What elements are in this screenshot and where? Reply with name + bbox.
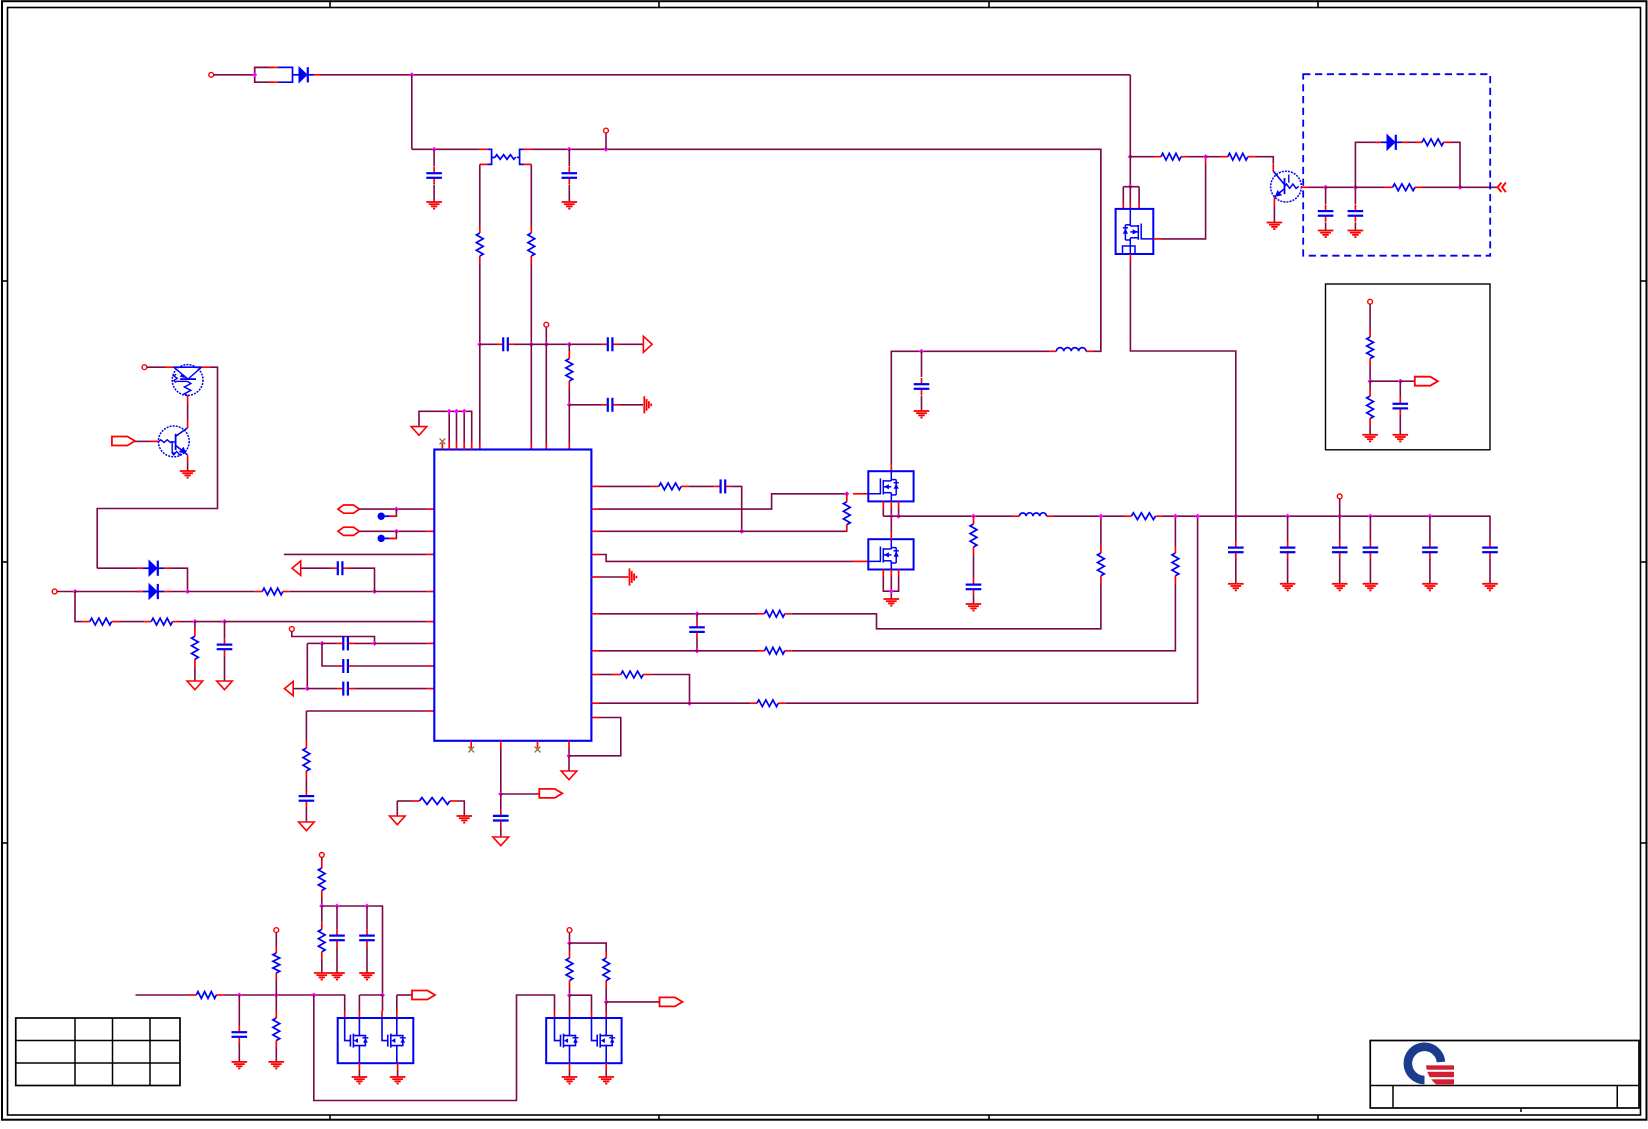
resistor R10 xyxy=(843,495,850,532)
wire U2 source bracket2 xyxy=(898,509,900,517)
pin stub IC top 9 xyxy=(568,443,570,450)
port FB in xyxy=(285,681,294,695)
wire U2 source bracket xyxy=(882,509,884,517)
wire U4 gate route xyxy=(1161,163,1206,239)
pin stub IC right 1 xyxy=(591,485,599,487)
wire caprow3 right xyxy=(354,688,427,690)
pin stub U5 top 382.0 xyxy=(381,1011,383,1018)
wire J10 down xyxy=(275,933,277,947)
offpage connector lens 2 xyxy=(338,527,359,535)
junction C2 tap xyxy=(567,147,572,152)
wire C24 top xyxy=(1354,187,1356,204)
wire pin3 drop xyxy=(382,995,384,1011)
wire C2 down xyxy=(568,185,570,202)
wire C15 up xyxy=(921,351,923,377)
mosfet U3 xyxy=(868,539,913,569)
capacitor C8 xyxy=(337,636,354,650)
wire pin2 drop xyxy=(358,995,360,1011)
wire rail y149 right xyxy=(531,149,1101,351)
resistor R24 xyxy=(1367,389,1374,426)
capacitor C13 xyxy=(714,479,731,493)
power symbol PW3 xyxy=(217,681,233,690)
terminal J8 xyxy=(1368,299,1373,304)
wire C6 to row591 xyxy=(349,568,375,591)
wire R5-R6 xyxy=(119,621,145,623)
IC U1 xyxy=(434,450,591,741)
power symbol PW1 xyxy=(411,427,427,436)
resistor R31 xyxy=(566,951,573,988)
wire row651 b xyxy=(697,650,758,652)
wire Q3 out b xyxy=(1326,186,1356,188)
wire IC bottom pin4 xyxy=(568,748,570,756)
capacitor C9 xyxy=(337,659,354,673)
pin stub U6 top 606.25 xyxy=(605,1011,607,1018)
terminal J5 xyxy=(52,589,57,594)
wire J9 down xyxy=(321,857,323,861)
junction bus C19 xyxy=(1337,514,1342,519)
junction R28 tap xyxy=(274,992,279,997)
wire to D3 xyxy=(75,591,141,593)
capacitor C26 xyxy=(329,929,345,946)
wire R25 down xyxy=(321,898,323,907)
junction at F1 pin xyxy=(252,72,257,77)
wire lens2 to IC xyxy=(359,530,426,532)
pin stub IC bottom 4 xyxy=(568,741,570,748)
wire J5 down xyxy=(75,592,83,622)
pin stub U6 top 591.5 xyxy=(591,1011,593,1018)
pin stub U3 gate xyxy=(853,560,868,562)
resistor R6 xyxy=(144,618,179,625)
terminal J7 xyxy=(1337,494,1342,499)
wire row554 left xyxy=(284,553,427,555)
wire U6 gnd1 xyxy=(569,1070,571,1077)
no-connect X mark top xyxy=(440,438,446,444)
wire to IC left pin1 xyxy=(375,591,427,593)
junction SW node a xyxy=(889,514,894,519)
terminal J10 xyxy=(274,928,279,933)
ground U5 a xyxy=(352,1077,368,1084)
junction route tap xyxy=(311,992,316,997)
junction D2/D3 xyxy=(185,589,190,594)
pin stub IC right 2 xyxy=(591,508,599,510)
wire pin4 drop U6 xyxy=(605,1002,607,1011)
wire C1 up xyxy=(433,149,435,166)
resistor R18 xyxy=(1124,513,1162,520)
wire D2 to corner xyxy=(170,568,188,591)
resistor R26 xyxy=(318,922,325,959)
pin stub U2 b2 xyxy=(890,501,892,508)
resistor R13 xyxy=(758,647,792,654)
offpage connector lens 1 xyxy=(338,505,359,513)
junction jumper 2 xyxy=(394,529,399,534)
capacitor C28 xyxy=(232,1026,248,1043)
wire C4 row xyxy=(569,343,601,345)
wire row711 xyxy=(306,710,426,712)
wire C4 to port xyxy=(619,343,644,345)
wire C14 vert xyxy=(696,614,698,621)
ground C18 xyxy=(1280,584,1296,591)
dashed function box xyxy=(1303,74,1490,256)
capacitor C22 xyxy=(1482,541,1498,558)
power symbol PW5 xyxy=(493,837,509,846)
wire U4 pin a xyxy=(1122,187,1124,203)
wire R3 top xyxy=(568,344,570,351)
pin stub Q2 E xyxy=(187,455,189,462)
junction top pin 2 xyxy=(447,409,452,414)
wire U3 gnd bracket xyxy=(883,576,898,591)
wire row651 a xyxy=(599,650,697,652)
wire R3 bottom xyxy=(568,388,570,405)
wire node to node xyxy=(531,343,569,345)
resistor R27 xyxy=(189,992,223,999)
wire C2 up xyxy=(568,149,570,166)
wire drop to D2 xyxy=(97,567,141,569)
wire port to Q2 xyxy=(135,440,151,442)
wire C18 up xyxy=(1287,516,1289,541)
wire U4 pin b xyxy=(1129,187,1131,203)
junction row531 tap xyxy=(739,529,744,534)
wire C22 down xyxy=(1489,558,1491,583)
pin stub IC top 5 xyxy=(471,442,473,450)
resistor R3 xyxy=(566,352,573,388)
wire to chevron xyxy=(1460,186,1498,188)
wire IC top pin 3 xyxy=(456,411,458,441)
resistor R7 xyxy=(192,629,199,666)
wire row577 xyxy=(599,576,622,578)
wire jumper1 drop xyxy=(389,509,396,516)
pin stub IC right 8 xyxy=(591,674,599,676)
junction divider xyxy=(1368,379,1373,384)
wire U5 gnd1 xyxy=(358,1070,360,1077)
junction snub node xyxy=(1353,185,1358,190)
wire R10 top xyxy=(846,494,848,495)
pin stub Q1 C xyxy=(202,366,210,368)
capacitor C18 xyxy=(1280,541,1296,558)
wire J5 to dot xyxy=(57,591,75,593)
wire C12 up xyxy=(500,794,502,810)
capacitor C20 xyxy=(1363,541,1379,558)
wire node to R20 xyxy=(1206,156,1221,158)
ground R26 xyxy=(314,973,330,980)
wire C28 top xyxy=(238,995,240,1026)
pin stub IC left 554 xyxy=(427,553,435,555)
pin stub U4 bottom xyxy=(1129,254,1131,262)
pin stub IC left 2 xyxy=(427,621,435,623)
junction bias c1 xyxy=(334,903,339,908)
capacitor C1 xyxy=(426,167,442,184)
wire C20 up xyxy=(1369,516,1371,541)
wire port tail xyxy=(397,994,412,996)
wire C27 down xyxy=(366,946,368,972)
junction J3 tap xyxy=(544,342,549,347)
wire L1 to corner xyxy=(1093,149,1101,351)
wire C11 down xyxy=(305,807,307,822)
wire J6 route xyxy=(292,631,375,643)
wire row674 b xyxy=(650,675,689,704)
wire snub top branch xyxy=(1355,142,1379,187)
pin stub jumper 2 xyxy=(389,537,397,539)
wire R28 up xyxy=(275,995,277,1011)
ground C22 xyxy=(1482,584,1498,591)
pin stub IC left 3 xyxy=(427,642,435,644)
wire caprow vert1 xyxy=(306,643,308,688)
pin stub Q3 C xyxy=(1272,163,1274,171)
capacitor C12 xyxy=(493,810,509,827)
wire dots row621 xyxy=(195,621,225,623)
pin stub IC left 5 xyxy=(427,688,435,690)
junction R17 tap xyxy=(971,514,976,519)
junction snub right xyxy=(1457,185,1462,190)
pin stub U5 top 359.4 xyxy=(358,1011,360,1018)
wire C5 row xyxy=(569,404,601,406)
wire to IC pin xyxy=(568,405,570,443)
wire R4 to dot xyxy=(290,591,375,593)
ground C17 xyxy=(1228,584,1244,591)
inductor L2 xyxy=(1012,513,1053,516)
company logo xyxy=(1408,1047,1456,1085)
pin stub IC top 3 xyxy=(456,442,458,450)
pin stub U4 right xyxy=(1153,238,1161,240)
wire C12 down xyxy=(500,827,502,837)
wire R24 down xyxy=(1369,426,1371,435)
pin stub U5 b1 xyxy=(358,1063,360,1070)
wire bus2 a xyxy=(136,994,190,996)
pin stub choke bottom-right xyxy=(524,163,531,165)
wire IC top pin 2 xyxy=(448,411,450,441)
wire row703 c xyxy=(785,516,1197,703)
wire J7 stub xyxy=(1339,499,1341,516)
wire choke left leg xyxy=(479,164,481,226)
ground C16 xyxy=(966,604,982,611)
pin stub U4 t3 xyxy=(1138,203,1140,209)
junction caprow1 right xyxy=(372,641,377,646)
wire pin4 drop xyxy=(396,995,398,1011)
ground C27 xyxy=(359,973,375,980)
resistor R5 xyxy=(83,618,119,625)
capacitor C23 xyxy=(1318,205,1334,222)
wire R23 down xyxy=(1369,366,1371,382)
resistor R20 xyxy=(1221,153,1255,160)
pin stub IC top 7 xyxy=(530,443,532,450)
dual mosfet U5 xyxy=(338,1018,414,1063)
junction bus C21 xyxy=(1427,514,1432,519)
wire row486 b xyxy=(688,485,714,487)
transistor Q1 xyxy=(172,365,203,396)
wire long route xyxy=(314,995,555,1101)
pin stub IC top 4 xyxy=(463,442,465,450)
ground U6 a xyxy=(562,1077,578,1084)
capacitor C11 xyxy=(299,790,315,807)
wire caprow3 mid xyxy=(307,688,337,690)
pin stub U6 top 554.5 xyxy=(554,1011,556,1018)
wire C21 up xyxy=(1429,516,1431,541)
wire D4 to R22 xyxy=(1408,141,1415,143)
wire choke right leg xyxy=(530,164,532,226)
chassis ground AGND1 xyxy=(644,396,651,413)
pin stub IC top 2 xyxy=(448,442,450,450)
pin stub choke out+ xyxy=(524,148,531,150)
wire R19 to node xyxy=(1188,156,1206,158)
wire J1 to F1 xyxy=(214,74,255,76)
wire Q2 E to gnd xyxy=(187,463,189,471)
pin stub U5 top 344.7 xyxy=(344,1011,346,1018)
pin stub IC left 531 xyxy=(427,530,435,532)
junction bias c2 xyxy=(364,903,369,908)
wire C1 down xyxy=(433,185,435,202)
pin stub U6 b2 xyxy=(605,1063,607,1070)
junction R31 out xyxy=(567,993,572,998)
junction C4 tap xyxy=(567,342,572,347)
power symbol PW6 xyxy=(561,771,577,780)
capacitor C27 xyxy=(359,929,375,946)
pin stub IC top 6 xyxy=(479,443,481,450)
pin stub to node xyxy=(1205,157,1207,164)
fuse F1 xyxy=(255,67,273,82)
chassis ground AGND2 xyxy=(630,568,637,585)
wire to IC pin VDD1 xyxy=(479,344,481,442)
pin stub IC bottom 3 nc xyxy=(537,741,539,748)
junction bus R12 xyxy=(1098,514,1103,519)
wire D3 to dot xyxy=(170,591,188,593)
ground Rsense xyxy=(457,816,473,823)
wire U5 gnd2 xyxy=(397,1070,399,1077)
junction bus R14 xyxy=(1173,514,1178,519)
pin stub IC left 509 xyxy=(427,508,435,510)
wire R24 top xyxy=(1369,381,1371,389)
wire C28 down xyxy=(238,1043,240,1061)
inductor L1 xyxy=(1049,348,1093,352)
ground C19 xyxy=(1332,584,1348,591)
capacitor C10 xyxy=(337,682,354,696)
pin stub IC left 4 xyxy=(427,665,435,667)
wire C24 down xyxy=(1354,222,1356,230)
no-connect X mark bottom 3 xyxy=(535,747,541,753)
wire R2 to C3 node xyxy=(530,263,532,344)
wire pin4 gnd xyxy=(568,756,570,771)
terminal J2 xyxy=(604,128,609,133)
resistor R17 xyxy=(970,517,977,554)
wire C15 down xyxy=(921,396,923,411)
pin stub IC top 1 nc xyxy=(441,443,443,450)
capacitor C4 xyxy=(602,337,619,351)
wire R14 top xyxy=(1174,516,1176,546)
wire U4 bracket xyxy=(1123,186,1139,188)
wire row486 c xyxy=(731,486,741,531)
pin stub U4 t1 xyxy=(1122,203,1124,209)
wire to port4 xyxy=(606,1001,659,1003)
pin stub U3 b1 xyxy=(882,570,884,577)
resistor R32 xyxy=(412,798,457,805)
port PGOOD out xyxy=(539,789,562,798)
wire J11 right xyxy=(570,943,607,951)
wire C27 top xyxy=(366,906,368,929)
junction OUT node xyxy=(498,791,503,796)
resistor R25 xyxy=(318,861,325,898)
junction R1/C3 xyxy=(477,342,482,347)
ground Q3 xyxy=(1267,223,1283,230)
resistor R23 xyxy=(1367,330,1374,366)
wire to IC left pin3 xyxy=(375,642,427,644)
junction VIN rail xyxy=(409,72,414,77)
wire bus2 c xyxy=(359,994,382,996)
wire U6 gnd2 xyxy=(605,1070,607,1077)
pin stub IC left 6 xyxy=(427,710,435,712)
pin stub U2 b1 xyxy=(882,501,884,508)
wire row711 drop xyxy=(305,711,307,741)
wire J2 stub xyxy=(605,133,607,149)
ground R28 xyxy=(269,1062,285,1069)
wire to port2 xyxy=(1400,380,1415,382)
wire IC bottom pin2 xyxy=(500,748,502,794)
wire C7 up xyxy=(224,622,226,639)
junction U3 gnd xyxy=(889,589,894,594)
wire U2 drain rail xyxy=(891,351,1049,465)
pin stub choke bottom-left xyxy=(480,163,487,165)
wire C5 to chassis xyxy=(619,404,643,406)
pin stub U2 b3 xyxy=(898,501,900,508)
pin stub IC right 3 xyxy=(591,530,599,532)
wire R26 top xyxy=(321,906,323,922)
ground U3 xyxy=(884,599,900,606)
junction U4 node top xyxy=(1128,154,1133,159)
resistor R28 xyxy=(273,1011,280,1048)
wire C26 down xyxy=(336,946,338,972)
wire U4 pin c xyxy=(1138,187,1140,203)
pin stub Q2 C xyxy=(187,420,189,428)
wire U2 center leg xyxy=(890,509,892,533)
pin stub Q3 out xyxy=(1301,186,1308,188)
wire R8 to C11 xyxy=(305,778,307,792)
resistor R22 xyxy=(1415,139,1451,146)
terminal J4 xyxy=(142,365,147,370)
solid function box xyxy=(1326,284,1491,450)
wire R30 down xyxy=(605,988,607,1002)
wire D1 to VIN rail xyxy=(320,74,1130,76)
pin stub IC right 9 xyxy=(591,702,599,704)
wire bus2 b xyxy=(223,995,344,1011)
junction R3/C5 xyxy=(567,402,572,407)
diode D3 xyxy=(137,584,170,599)
diode D2 xyxy=(137,561,170,576)
capacitor C3 xyxy=(497,337,514,351)
junction C7 tap xyxy=(222,619,227,624)
resistor R14 xyxy=(1172,546,1179,583)
capacitor C24 xyxy=(1348,205,1364,222)
wire R6 to dot xyxy=(180,621,195,623)
wire R26 down xyxy=(321,959,323,973)
wire C3 right xyxy=(514,343,531,345)
wire R7 down xyxy=(194,666,196,680)
wire row703 b xyxy=(690,702,751,704)
pin stub Q3 E xyxy=(1273,198,1275,207)
ground C20 xyxy=(1363,584,1379,591)
pin stub chassis xyxy=(622,576,628,578)
junction C1 tap xyxy=(432,147,437,152)
pin stub IC right 4 xyxy=(591,554,599,556)
resistor R8 xyxy=(303,741,310,778)
wire U3 center gnd xyxy=(890,576,892,599)
wire J3 stub xyxy=(545,327,547,344)
ground C23 xyxy=(1318,231,1334,238)
wire R17 top xyxy=(973,515,975,518)
wire Q1-Q2 xyxy=(187,403,189,420)
wire to IC pin VDD2 xyxy=(530,344,532,442)
wire port to dot xyxy=(293,688,307,690)
wire row486 a xyxy=(599,485,652,487)
capacitor C2 xyxy=(562,167,578,184)
junction top pin 4 xyxy=(462,409,467,414)
wire C20 down xyxy=(1369,558,1371,583)
